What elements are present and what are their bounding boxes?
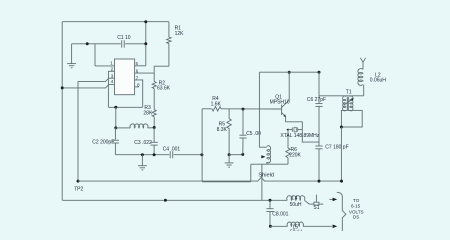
wire T1 primary top net <box>319 95 364 97</box>
wire pin3 vertical to TP2 <box>77 81 79 181</box>
svg-text:XTAL 148.89MHz: XTAL 148.89MHz <box>280 133 319 139</box>
capacitor C3 <box>134 128 157 155</box>
wire pin8 stub <box>135 86 139 88</box>
inductor L2 <box>358 69 386 96</box>
wire top rail left <box>62 21 169 23</box>
node dot R5 bottom <box>228 153 231 156</box>
inductor L4 <box>287 196 305 209</box>
svg-text:L4: L4 <box>292 196 298 202</box>
svg-text:6-15: 6-15 <box>351 204 361 209</box>
brace output <box>337 192 346 236</box>
wire ground rail <box>115 154 169 156</box>
wire pin7 stub and vertical <box>135 80 143 107</box>
node dot C3 bottom <box>153 153 156 156</box>
wire T1 secondary loop <box>341 110 362 127</box>
node dot collector on rail <box>288 71 291 74</box>
capacitor C5 <box>239 109 261 154</box>
wire shield bottom horizontal <box>251 163 288 165</box>
svg-text:C8.001: C8.001 <box>272 211 288 217</box>
capacitor C2 <box>92 128 119 155</box>
inductor L1 <box>116 124 154 128</box>
svg-text:1.6K: 1.6K <box>211 101 222 107</box>
wire loop to output line <box>340 127 342 181</box>
wire C6/C7 vertical <box>318 72 320 103</box>
svg-text:C1 10: C1 10 <box>117 35 131 41</box>
svg-text:C3 .022: C3 .022 <box>134 140 152 146</box>
capacitor C7 <box>315 145 348 182</box>
resistor R3 <box>143 105 156 116</box>
svg-text:MPSH10: MPSH10 <box>270 100 290 106</box>
ground (center under rail) <box>138 155 147 170</box>
resistor R4 <box>202 96 281 111</box>
wire R5 to C5 <box>229 154 243 156</box>
node dot on C1 net <box>86 42 89 45</box>
svg-text:63.6K: 63.6K <box>157 86 171 92</box>
wire pin4 net <box>62 85 114 88</box>
transistor Q1 <box>270 95 290 117</box>
node dot output line C7 <box>318 180 321 183</box>
wire top rail right <box>259 71 319 73</box>
node dot ground rail / ground stem <box>141 153 144 156</box>
wire R4 net vertical <box>201 109 203 181</box>
wire pin1 stub <box>95 65 115 67</box>
svg-text:VOLTS: VOLTS <box>349 209 364 214</box>
node dot C5 bottom <box>241 153 244 156</box>
inductor shield coil (variable) <box>261 146 270 164</box>
node dot C1 net <box>144 42 147 45</box>
wire feedback horizontal under IC <box>108 106 142 108</box>
svg-text:C2 200pF: C2 200pF <box>92 140 114 146</box>
node dot bottom rail <box>164 199 167 202</box>
node dot rail right end <box>200 153 203 156</box>
svg-text:S1: S1 <box>313 205 319 211</box>
node dot feedback <box>114 106 117 109</box>
svg-text:DS: DS <box>353 215 359 220</box>
svg-text:8.3K: 8.3K <box>217 127 228 133</box>
svg-text:220K: 220K <box>289 153 301 159</box>
svg-text:C6 27pF: C6 27pF <box>307 97 326 103</box>
capacitor C6 <box>307 97 326 146</box>
svg-text:28K: 28K <box>143 110 153 116</box>
wire pin5 vertical to top rail <box>145 22 147 66</box>
svg-text:TP2: TP2 <box>74 186 83 192</box>
node dot base net / C5 <box>242 108 245 111</box>
node dot L5 corner <box>269 225 272 228</box>
wire pin2 stub and jog <box>108 71 114 107</box>
node dot loop corner <box>340 126 343 129</box>
svg-text:50uH: 50uH <box>290 202 302 208</box>
node dot tank left <box>114 126 117 129</box>
node dot rail right end <box>318 71 321 74</box>
wire C1 net horizontal <box>72 43 121 45</box>
inductor L5 <box>270 222 337 236</box>
svg-text:50uH: 50uH <box>290 230 302 231</box>
wire collector rail vertical to shield coil <box>259 72 266 147</box>
resistor R6 <box>286 130 302 165</box>
node dot top rail <box>144 20 147 23</box>
resistor R5 <box>217 109 232 155</box>
wire shield bottom edge (thick) <box>202 181 251 183</box>
svg-text:C7 180 pF: C7 180 pF <box>325 145 348 151</box>
svg-text:T1: T1 <box>346 89 352 95</box>
svg-text:0.06uH: 0.06uH <box>370 78 387 84</box>
TP2 node dot <box>77 180 80 183</box>
ground (under R5) <box>225 155 234 167</box>
wire bottom rail <box>62 199 287 201</box>
wire pin1 drop vertical <box>94 44 96 66</box>
wire branch down to tank node <box>115 107 117 128</box>
capacitor C1 <box>117 35 131 48</box>
wire R1 to pin6 vertical <box>154 65 169 67</box>
resistor R2 <box>152 81 171 92</box>
wire left frame vertical <box>61 22 63 201</box>
wire pin5 stub <box>135 65 146 67</box>
wire shield left vertical <box>250 164 252 181</box>
IC U1 (8-pin DIP) <box>115 59 135 95</box>
node TO text <box>349 198 364 219</box>
node dot pin4 on frame <box>61 86 64 89</box>
wire pin6 stub <box>135 72 155 74</box>
capacitor C4 <box>163 146 181 158</box>
antenna <box>360 58 365 70</box>
node dot output line right end <box>340 180 343 183</box>
switch S1 <box>305 195 324 212</box>
wire emitter path <box>286 117 319 143</box>
svg-text:C4 .001: C4 .001 <box>163 146 181 152</box>
ground (left, under C1 net) <box>67 44 76 68</box>
wire TP2 output line with hop <box>78 178 342 182</box>
svg-text:C5 .00: C5 .00 <box>246 131 261 137</box>
node dot tank right <box>153 126 156 129</box>
resistor R1 <box>167 22 184 66</box>
transformer T1 <box>343 89 354 111</box>
node dot C8 top <box>269 199 272 202</box>
svg-text:12K: 12K <box>175 31 185 37</box>
arrow upper output <box>329 198 337 202</box>
wire pin3 net <box>78 78 115 81</box>
capacitor C8 <box>266 200 288 226</box>
svg-text:TO: TO <box>353 198 360 203</box>
wire coil tap to bottom rail (crosses output line) <box>261 164 263 200</box>
wire collector vertical <box>288 72 290 100</box>
svg-text:Shield: Shield <box>258 172 274 178</box>
crystal XTAL <box>280 127 319 139</box>
